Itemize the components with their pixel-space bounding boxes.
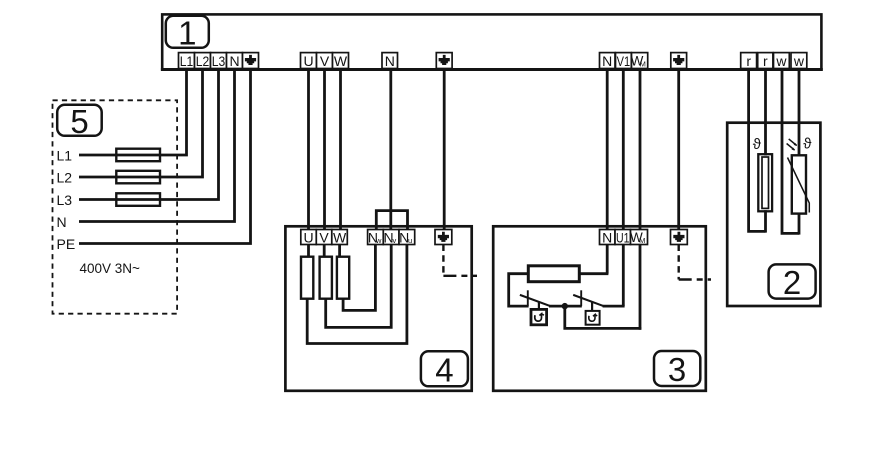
wire L3 supply to box1 [79, 69, 219, 200]
junction node [562, 303, 568, 309]
wire N box1 to box4 bridge [389, 69, 392, 230]
terminal L1 (box1) [179, 53, 195, 70]
svg-text:400V 3N~: 400V 3N~ [80, 261, 141, 276]
fuse F3 (L3) [116, 193, 160, 206]
svg-text:PE: PE [57, 236, 76, 252]
wire ground box1 to box4 [443, 69, 446, 230]
svg-text:w: w [375, 236, 382, 245]
svg-text:N: N [385, 53, 395, 69]
thermostat T1 box [531, 309, 547, 324]
thermostat T2 box [586, 311, 600, 325]
terminal V (box4) [316, 230, 332, 246]
terminal Nu (box4) [399, 230, 415, 246]
svg-text:r: r [763, 53, 768, 69]
svg-text:M: M [640, 60, 646, 69]
pump box 3 outline [493, 226, 706, 390]
svg-text:L3: L3 [57, 192, 73, 208]
terminal U (box4) [301, 230, 317, 246]
neutral bridge over Nw Nv Nu [376, 211, 407, 230]
fuse F2 (L2) [116, 171, 160, 184]
wire r2 box1 to sensor 1 [764, 69, 767, 123]
terminal N heater (box1) [382, 53, 398, 70]
svg-text:L2: L2 [57, 170, 73, 186]
wire element EU to Nu [307, 245, 407, 344]
svg-text:L1: L1 [57, 148, 73, 164]
terminal Wm (box3) [630, 230, 647, 246]
wire w2 box1 to sensor 2 [798, 69, 801, 123]
terminal Wm (box1) [631, 53, 648, 69]
box 1 bottom edge (thick) [161, 68, 823, 71]
terminal r1 (box1) [741, 53, 757, 70]
wire N to motor [579, 272, 608, 275]
svg-text:2: 2 [783, 264, 801, 301]
svg-text:V: V [319, 230, 329, 246]
thermal switch S2 actuator stem [591, 302, 593, 311]
terminal L3 (box1) [211, 53, 227, 70]
svg-text:W: W [333, 230, 347, 246]
terminal N (box3) [600, 230, 616, 246]
terminal ground (box3) [671, 230, 688, 245]
thermal switch S2 contact post [580, 290, 582, 306]
svg-text:V1: V1 [617, 53, 631, 69]
wire N box1 to box3 [606, 69, 609, 230]
sensor pocket r loop [749, 123, 766, 232]
NTC diagonal [788, 158, 810, 213]
heating element EU [301, 257, 313, 299]
label 4 (heater) [421, 351, 468, 388]
wire U terminal to element [307, 245, 310, 257]
svg-text:5: 5 [70, 103, 88, 140]
svg-text:w: w [775, 53, 787, 69]
svg-text:N: N [229, 53, 239, 69]
svg-text:W: W [334, 53, 348, 69]
terminal PE ground (box1) [243, 53, 259, 69]
svg-text:V: V [320, 53, 330, 69]
controller box 1 outline [162, 14, 821, 69]
svg-text:w: w [793, 53, 805, 69]
svg-text:M: M [639, 236, 645, 245]
temperature sensor R2 (NTC) [792, 155, 806, 213]
terminal W (box1) [333, 53, 349, 70]
wire N into box3 [606, 245, 609, 274]
terminal N mains (box1) [227, 53, 243, 70]
label 3 (pump unit) [654, 351, 700, 388]
heater box 4 outline [285, 226, 471, 390]
terminal ground heater (box1) [436, 53, 452, 69]
NTC arrows [787, 139, 797, 151]
terminal V1 (box1) [616, 53, 632, 70]
wire L2 supply to box1 [79, 69, 203, 177]
wire sensor element to pocket [764, 210, 767, 232]
sensor box 2 outline [727, 123, 820, 306]
svg-text:ϑ: ϑ [803, 136, 812, 153]
svg-text:N: N [602, 230, 612, 246]
wire element EV to Nv [326, 245, 392, 328]
svg-text:L3: L3 [212, 53, 226, 69]
svg-text:N: N [602, 53, 612, 69]
wire switch S2 to U1 [603, 305, 625, 308]
wire U box1 to box4 [307, 69, 310, 230]
svg-text:U: U [304, 230, 314, 246]
terminal N pump (box1) [600, 53, 616, 70]
terminal W (box4) [332, 230, 348, 246]
svg-text:1: 1 [178, 15, 196, 52]
fuse F1 (L1) [116, 149, 160, 162]
svg-text:u: u [408, 236, 412, 245]
terminal w1 (box1) [774, 53, 790, 70]
terminal U1 (box3) [615, 230, 631, 246]
temperature sensor R1 outer [758, 154, 772, 211]
supply box 5 dashed outline [53, 100, 178, 313]
svg-text:N: N [57, 214, 67, 230]
label 5 (mains supply) [57, 103, 101, 140]
wire U1 down into box3 [622, 245, 625, 307]
svg-text:ϑ: ϑ [753, 136, 762, 153]
terminal Nw (box4) [368, 230, 384, 246]
svg-text:r: r [746, 53, 751, 69]
terminal V (box1) [317, 53, 333, 70]
thermal switch S2 blade [573, 295, 604, 306]
wire ground box1 to box3 [677, 69, 680, 230]
wire r2 to sensor element [764, 123, 767, 156]
svg-text:U: U [303, 53, 313, 69]
ground lead dashed (box4) [442, 245, 444, 276]
thermal switch S1 actuator stem [538, 302, 540, 310]
pump motor winding M1 [528, 266, 579, 282]
wire N supply to box1 [79, 69, 235, 222]
wire V1 box1 to U1 box3 [622, 69, 625, 230]
heating element EW [337, 257, 349, 299]
ground lead dashed (box3) [678, 245, 680, 280]
wire Wm down into box3 [639, 245, 642, 330]
wire PE supply to box1 [79, 69, 251, 244]
wire w2 to sensor element [798, 123, 801, 157]
label 1 (controller) [166, 15, 209, 52]
wire V terminal to element [323, 245, 326, 257]
wire junction to Wm [565, 306, 642, 328]
wire Wm box1 to box3 [639, 69, 642, 230]
wire r1 box1 to sensor pocket [747, 69, 750, 123]
svg-text:L1: L1 [180, 53, 194, 69]
wire W terminal to element [338, 245, 341, 257]
terminal L2 (box1) [195, 53, 211, 70]
terminal U (box1) [301, 53, 317, 70]
wire V box1 to box4 [323, 69, 326, 230]
wire sensor element to pocket [798, 213, 801, 235]
svg-text:U1: U1 [616, 230, 630, 246]
thermal switch S1 contact post [527, 290, 529, 306]
wire L1 supply to box1 [79, 69, 187, 155]
thermal switch S1 blade [520, 295, 551, 306]
temperature sensor R1 inner [762, 157, 769, 208]
svg-text:L2: L2 [196, 53, 210, 69]
terminal Nv (box4) [383, 230, 399, 246]
svg-text:4: 4 [435, 352, 453, 389]
wire motor to switch line [509, 274, 529, 306]
label 2 (sensors) [769, 264, 816, 301]
terminal ground (box4) [435, 230, 452, 245]
wire between switches [549, 305, 582, 308]
sensor pocket w loop [782, 123, 799, 234]
wire element EW to Nw [343, 245, 375, 311]
wire w1 box1 to sensor pocket [781, 69, 784, 123]
terminal r2 (box1) [758, 53, 773, 70]
terminal ground pump (box1) [671, 53, 687, 69]
svg-text:3: 3 [668, 351, 686, 388]
heating element EV [320, 257, 332, 299]
svg-text:v: v [393, 236, 397, 245]
terminal w2 (box1) [791, 53, 807, 70]
wire W box1 to box4 [339, 69, 342, 230]
